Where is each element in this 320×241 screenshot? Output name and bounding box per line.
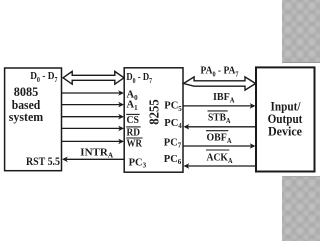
wire A0 [62, 92, 121, 94]
data bus double arrow D0-D7 [63, 71, 124, 84]
wire INTR (PC3 to RST 5.5) [65, 158, 124, 160]
svg-text:RD: RD [127, 128, 141, 139]
svg-text:IBFA: IBFA [213, 91, 235, 104]
wire A1 [62, 104, 121, 106]
svg-text:D0 - D7: D0 - D7 [30, 70, 58, 84]
wire ACK [187, 165, 257, 167]
wire STB [187, 126, 257, 128]
svg-text:OBFA: OBFA [207, 132, 233, 145]
svg-text:ACKA: ACKA [207, 152, 234, 165]
svg-text:system: system [9, 110, 44, 124]
svg-text:INTRA: INTRA [80, 146, 114, 159]
svg-text:CS: CS [127, 115, 140, 126]
svg-text:PA0 - PA7: PA0 - PA7 [201, 64, 239, 78]
wire RD [62, 127, 121, 129]
port A bus double arrow PA0-PA7 [184, 77, 256, 90]
svg-text:RST 5.5: RST 5.5 [26, 154, 60, 168]
8255 PPI box U1 [124, 68, 183, 172]
wire IBF [184, 105, 253, 107]
decorative right strip top segment [282, 0, 320, 63]
decorative right strip bottom segment [282, 176, 320, 241]
wire OBF [184, 145, 253, 147]
svg-text:8255: 8255 [147, 99, 162, 125]
svg-text:8085: 8085 [14, 85, 39, 99]
8085 based system box [5, 68, 62, 171]
wire WR [62, 140, 121, 142]
svg-text:STBA: STBA [208, 112, 231, 125]
wire CS [62, 116, 121, 118]
svg-text:WR: WR [127, 139, 143, 150]
svg-text:Device: Device [268, 125, 302, 139]
Input/Output Device box [256, 67, 315, 171]
